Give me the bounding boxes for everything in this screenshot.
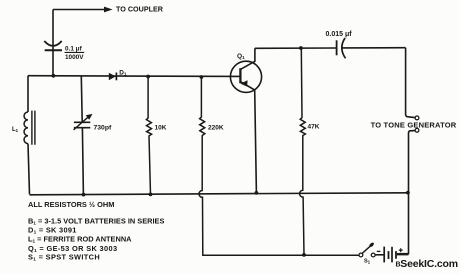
svg-text:220K: 220K [208,125,224,132]
svg-text:TO TONE GENERATOR: TO TONE GENERATOR [371,120,457,129]
transistor Q1 emitter arrowhead [240,80,247,86]
variable capacitor 730pf plates [74,122,90,127]
svg-text:L1: L1 [12,127,19,133]
wire switch to battery [375,254,384,256]
transistor Q1 collector line [240,48,255,69]
wire battery to right corner [397,254,409,256]
wire to coupler arrow line [53,9,105,11]
wire vertical from coupler line to capacitor C1 [52,10,54,76]
svg-text:1000V: 1000V [65,54,84,61]
svg-text:ALL RESISTORS ½ OHM: ALL RESISTORS ½ OHM [28,200,114,209]
arrowhead to coupler [104,7,113,13]
node dot 220K top [200,75,204,79]
transistor Q1 circle [230,61,261,92]
variable capacitor 730pf arrow [74,117,88,130]
capacitor 0.015uf right curved plate [342,38,346,58]
resistor R 220K [199,77,359,255]
node dot emitter bottom [255,191,259,195]
terminal circle upper [415,116,419,120]
battery B1 plus sign [399,248,403,252]
variable capacitor 730pf branch wire [81,76,83,194]
svg-text:S1: S1 [364,259,371,265]
resistor R 10K [146,77,151,195]
node dot 47K bottom rail2 [302,253,306,257]
node dot 47K top [299,46,303,50]
switch S1 lever knob [369,242,375,248]
svg-text:SeekIC.com: SeekIC.com [400,258,458,270]
svg-text:D1 = SK 3091: D1 = SK 3091 [28,225,77,234]
inductor L1 coil [24,112,28,144]
node dot 10K top [146,75,150,79]
svg-text:730pf: 730pf [94,124,112,131]
wire left vertical L1 branch upper [27,76,29,112]
svg-text:Q1: Q1 [237,53,245,60]
capacitor 0.015uf left plate [336,40,338,55]
capacitor C 0.1uf top curved plate [44,41,61,46]
battery B1 plate long 1 [383,247,385,263]
switch S1 contact circle right [371,253,375,257]
top rail wire [28,75,241,78]
svg-text:0.1 μf: 0.1 μf [65,46,83,53]
switch S1 contact circle left [359,253,363,257]
battery B1 plate short 1 [388,251,390,259]
node dot 10K bottom [149,193,153,197]
node dot 730pf bottom [82,193,86,197]
battery B1 plate long 2 [391,247,393,263]
transistor Q1 emitter line [240,82,256,193]
svg-text:D1: D1 [119,69,127,76]
switch S1 lever [362,246,370,253]
svg-text:47K: 47K [308,124,320,131]
right branch wire down from cap [406,48,415,118]
node dot cap junction [52,74,56,78]
diode D1 [109,73,116,81]
collector top wire [255,47,406,50]
wire left vertical L1 branch lower [28,144,30,195]
wire from lower terminal down [397,131,415,254]
node dot right rail junction [406,191,410,195]
svg-text:TO COUPLER: TO COUPLER [116,5,164,14]
resistor R 47K [300,48,306,255]
terminal circle lower [415,128,419,132]
svg-text:B1 = 3-1.5 VOLT BATTERIES IN S: B1 = 3-1.5 VOLT BATTERIES IN SERIES [28,216,164,225]
svg-text:S1 = SPST SWITCH: S1 = SPST SWITCH [28,253,100,262]
battery B1 plate short 2 [395,251,397,259]
svg-text:0.015 μf: 0.015 μf [326,31,353,38]
svg-text:10K: 10K [155,125,167,132]
bottom rail wire [30,193,409,195]
battery B1 minus sign [377,250,381,252]
svg-text:L1 = FERRITE ROD ANTENNA: L1 = FERRITE ROD ANTENNA [28,235,132,244]
transistor Q1 base bar [239,68,241,83]
inductor L1 ferrite core lines [32,111,35,145]
capacitor C 0.1uf bottom plate [45,49,62,51]
